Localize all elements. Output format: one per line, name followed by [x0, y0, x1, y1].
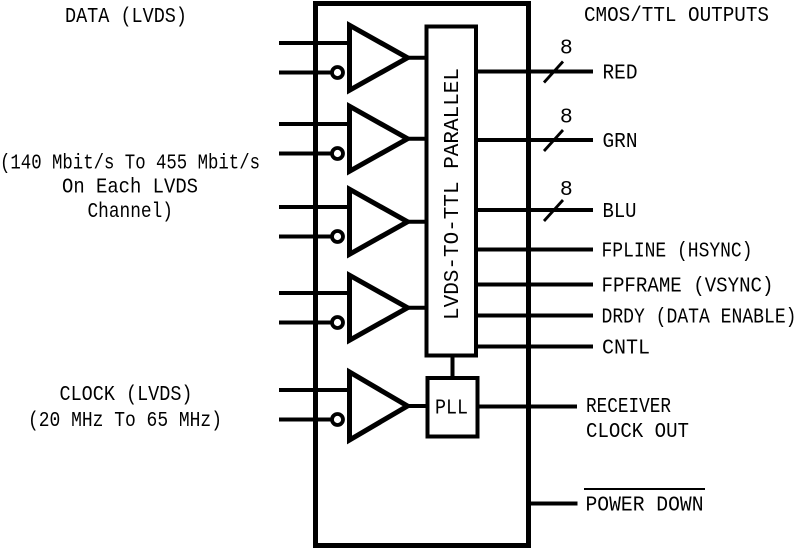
- svg-text:CMOS/TTL OUTPUTS: CMOS/TTL OUTPUTS: [584, 4, 769, 28]
- LVDS receiver buffer A4: [350, 275, 408, 340]
- svg-text:FPLINE (HSYNC): FPLINE (HSYNC): [602, 240, 753, 264]
- wire converter to PLL: [451, 356, 455, 379]
- wire POWER DOWN input: [529, 502, 578, 506]
- bus slash RED: [544, 62, 563, 83]
- LVDS receiver buffer A5 clock: [350, 372, 408, 440]
- svg-text:(140 Mbit/s To 455 Mbit/s: (140 Mbit/s To 455 Mbit/s: [0, 152, 260, 176]
- bus slash BLU: [544, 200, 563, 221]
- svg-text:CNTL: CNTL: [602, 337, 650, 361]
- svg-text:On Each LVDS: On Each LVDS: [62, 176, 198, 200]
- bubble ch1 inverting input: [332, 67, 343, 78]
- wire ch1 in+: [279, 41, 351, 45]
- IC body outline U1: [316, 4, 529, 546]
- overline POWER DOWN: [584, 488, 705, 490]
- bubble ch4 inverting input: [332, 317, 343, 328]
- bus slash GRN: [544, 130, 563, 151]
- bubble ch3 inverting input: [332, 231, 343, 242]
- svg-text:RECEIVER: RECEIVER: [586, 395, 671, 419]
- svg-text:8: 8: [560, 37, 573, 61]
- wire ch4 out: [405, 306, 428, 310]
- wire ch3 in+: [279, 205, 351, 209]
- LVDS-TO-TTL PARALLEL converter block: [427, 27, 477, 356]
- svg-text:POWER DOWN: POWER DOWN: [586, 494, 704, 518]
- bubble clock inverting input: [332, 414, 343, 425]
- svg-text:PLL: PLL: [435, 397, 468, 421]
- svg-text:BLU: BLU: [603, 200, 637, 224]
- wire FPLINE output: [476, 248, 593, 252]
- svg-text:RED: RED: [603, 62, 638, 86]
- svg-text:8: 8: [560, 106, 573, 130]
- wire CNTL output: [476, 345, 593, 349]
- wire ch3 out: [405, 220, 428, 224]
- wire ch4 in+: [279, 291, 351, 295]
- svg-text:CLOCK (LVDS): CLOCK (LVDS): [60, 383, 193, 407]
- svg-text:8: 8: [560, 178, 573, 202]
- wire ch1 out: [405, 56, 428, 60]
- wire clock out to PLL: [405, 404, 430, 408]
- wire clock in-: [279, 418, 331, 422]
- LVDS receiver buffer A3: [350, 189, 408, 254]
- svg-text:Channel): Channel): [88, 200, 174, 224]
- wire GRN output: [476, 138, 593, 142]
- wire RECEIVER CLOCK OUT: [478, 405, 578, 409]
- wire clock in+: [279, 388, 351, 392]
- svg-text:GRN: GRN: [603, 130, 638, 154]
- wire ch2 in-: [279, 152, 331, 156]
- wire ch2 in+: [279, 122, 351, 126]
- svg-text:FPFRAME (VSYNC): FPFRAME (VSYNC): [602, 275, 774, 299]
- LVDS receiver buffer A2: [350, 106, 408, 171]
- wire DRDY output: [476, 314, 593, 318]
- bubble ch2 inverting input: [332, 148, 343, 159]
- wire ch1 in-: [279, 71, 331, 75]
- wire ch3 in-: [279, 235, 331, 239]
- svg-text:CLOCK OUT: CLOCK OUT: [586, 420, 689, 444]
- wire RED output: [476, 70, 593, 74]
- svg-text:LVDS-TO-TTL PARALLEL: LVDS-TO-TTL PARALLEL: [441, 68, 465, 320]
- svg-text:DRDY (DATA ENABLE): DRDY (DATA ENABLE): [602, 306, 797, 330]
- wire ch4 in-: [279, 321, 331, 325]
- wire BLU output: [476, 208, 593, 212]
- LVDS receiver buffer A1: [350, 25, 408, 90]
- wire FPFRAME output: [476, 283, 593, 287]
- svg-text:DATA (LVDS): DATA (LVDS): [65, 5, 187, 29]
- wire ch2 out: [405, 137, 428, 141]
- PLL block: [428, 378, 478, 437]
- svg-text:(20 MHz To 65 MHz): (20 MHz To 65 MHz): [28, 409, 222, 433]
